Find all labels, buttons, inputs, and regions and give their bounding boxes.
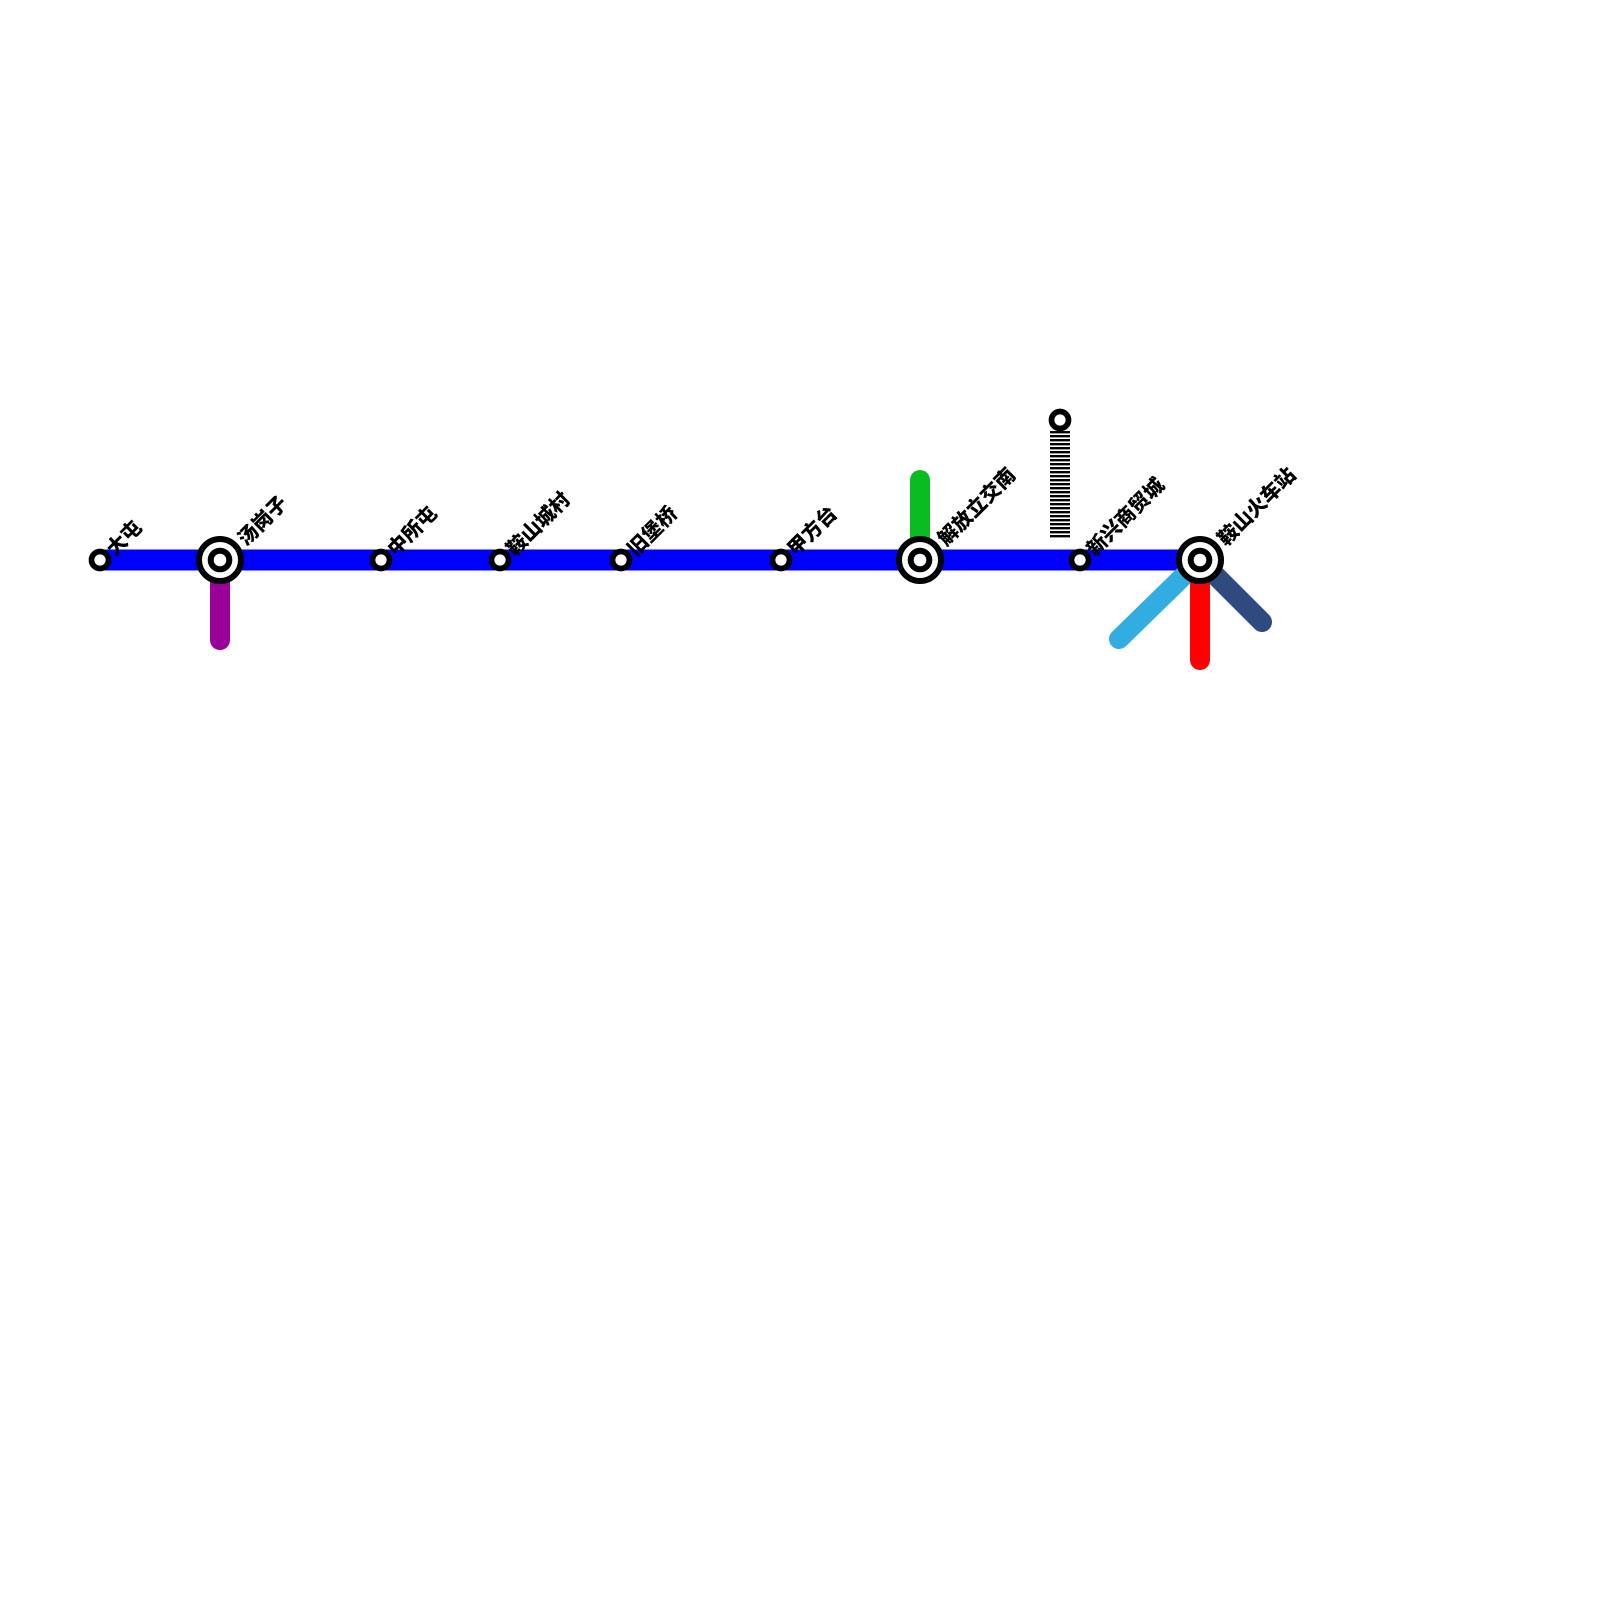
main line (blue)	[100, 550, 1200, 571]
endpoint station of dashed branch	[1052, 412, 1069, 429]
label 旧堡桥	[625, 503, 680, 558]
label 鞍山城村	[503, 489, 573, 559]
branch dark blue (down-right from 鞍山火车站)	[1200, 560, 1262, 622]
station 新兴商贸城	[1072, 552, 1089, 569]
label 大屯	[103, 517, 144, 558]
station 解放立交南	[899, 539, 941, 581]
station 旧堡桥	[613, 552, 630, 569]
station 大屯	[92, 552, 109, 569]
label 汤岗子	[235, 493, 290, 548]
branch light blue (down-left from 鞍山火车站)	[1119, 560, 1200, 639]
station 甲方台	[773, 552, 790, 569]
branch dashed black (above 新兴商贸城)	[1050, 431, 1070, 538]
branch purple (down from 汤岗子)	[210, 560, 230, 640]
label 新兴商贸城	[1083, 474, 1167, 558]
station 鞍山火车站	[1179, 539, 1221, 581]
station 中所屯	[373, 552, 390, 569]
label 解放立交南	[934, 465, 1018, 549]
branch red (down from 鞍山火车站)	[1190, 560, 1210, 660]
branch green (up from 解放立交南)	[910, 480, 930, 560]
label 鞍山火车站	[1214, 464, 1298, 548]
label 甲方台	[785, 503, 839, 557]
label 中所屯	[385, 503, 440, 558]
station 汤岗子	[199, 539, 241, 581]
station 鞍山城村	[492, 552, 509, 569]
